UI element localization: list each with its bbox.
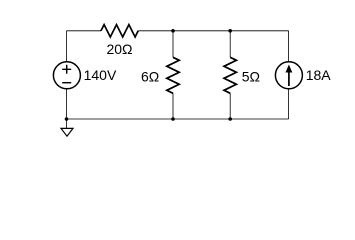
svg-text:20Ω: 20Ω (106, 41, 132, 57)
svg-text:5Ω: 5Ω (242, 68, 260, 84)
svg-text:140V: 140V (84, 67, 117, 83)
svg-text:6Ω: 6Ω (141, 68, 159, 84)
svg-text:18A: 18A (306, 67, 332, 83)
